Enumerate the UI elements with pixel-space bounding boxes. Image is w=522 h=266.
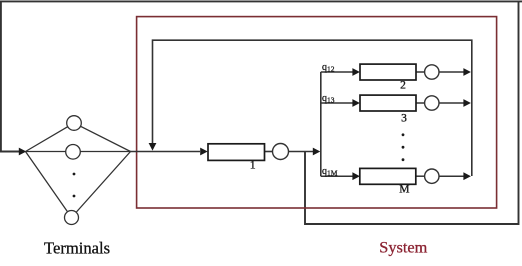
svg-text:q12: q12: [322, 62, 335, 74]
svg-text:System: System: [379, 237, 427, 256]
svg-text:q1M: q1M: [322, 166, 338, 178]
svg-text:3: 3: [401, 112, 407, 124]
svg-text:M: M: [399, 184, 409, 196]
svg-text:2: 2: [400, 80, 406, 92]
svg-text:1: 1: [250, 160, 256, 172]
svg-text:q13: q13: [322, 93, 335, 105]
svg-text:Terminals: Terminals: [44, 238, 110, 257]
